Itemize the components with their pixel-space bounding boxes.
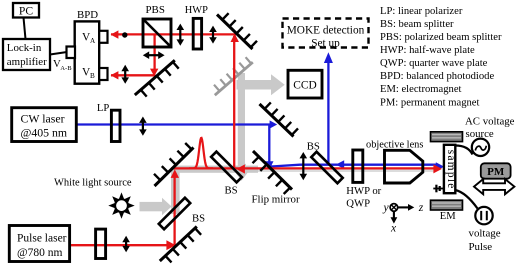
svg-text:Pulse laser: Pulse laser <box>17 232 67 244</box>
svg-text:LP: LP <box>97 103 109 114</box>
svg-text:y: y <box>383 201 390 214</box>
white light thin return line to sample <box>258 170 434 172</box>
flip mirror <box>253 151 293 194</box>
white light beam along corridor <box>173 166 258 173</box>
svg-text:BS: BS <box>225 185 238 197</box>
PC box <box>13 3 39 18</box>
BPD box <box>75 9 100 84</box>
pulse laser box <box>9 226 69 262</box>
blue arrowhead right before mirror <box>270 120 278 128</box>
BPD VA connector <box>99 31 107 43</box>
MOKE detection dashed box <box>283 19 369 50</box>
white light beam vertical BS to corner mirror <box>171 168 180 215</box>
blue CW probe beam horizontal <box>76 62 438 167</box>
svg-text:CW laser: CW laser <box>21 111 65 125</box>
blue arrowhead right into sample <box>436 162 444 171</box>
red arrowhead left on corridor <box>236 164 245 173</box>
white light source (star) <box>108 192 134 218</box>
blue arrowhead up into MOKE detection <box>324 52 333 63</box>
label VA-B <box>53 58 72 72</box>
svg-text:Pulse: Pulse <box>469 241 493 253</box>
blue arrowhead left (return beam) <box>336 160 344 169</box>
svg-text:PM: PM <box>487 166 505 178</box>
svg-text:EM: EM <box>440 211 456 222</box>
svg-text:White light source: White light source <box>54 178 132 189</box>
wire PC to lock-in <box>24 18 26 40</box>
white light beam into CCD (gray arrow) <box>237 74 285 95</box>
BPD left connector <box>67 47 76 59</box>
red node dot <box>122 32 127 37</box>
polarization arrow on CW beam <box>139 117 147 136</box>
svg-text:@405 nm: @405 nm <box>21 126 68 140</box>
PBS cube <box>143 19 171 47</box>
objective lens <box>385 150 423 183</box>
sample holder <box>444 145 457 193</box>
svg-text:EM: electromagnet: EM: electromagnet <box>380 84 462 95</box>
legend <box>380 6 502 109</box>
red arrowhead down to fold mirror <box>150 69 158 77</box>
svg-text:@780 nm: @780 nm <box>17 247 62 259</box>
electromagnet bottom pole <box>431 200 463 210</box>
gray flip-out mirror (to CCD) <box>214 57 253 95</box>
waveplate on pulse line <box>96 229 106 258</box>
svg-text:AC voltage: AC voltage <box>465 116 515 128</box>
CW laser box <box>12 108 77 142</box>
white light vertical beam to CCD branch with down arrow <box>234 73 248 181</box>
coordinate axes <box>390 204 409 218</box>
HWP or QWP <box>353 150 363 182</box>
polarization arrow right of HWP <box>209 26 217 44</box>
mirror top-right (red beam fold) <box>217 13 257 49</box>
svg-text:A: A <box>90 37 96 45</box>
svg-text:Lock-in: Lock-in <box>7 42 42 54</box>
label HWP or QWP <box>346 185 381 210</box>
CCD box <box>288 70 322 98</box>
red beam PBS to BPD VA (top line) <box>70 34 435 245</box>
svg-text:PM: permanent magnet: PM: permanent magnet <box>380 97 479 108</box>
wire lock-in to BPD connector <box>50 52 67 55</box>
svg-text:BS: beam splitter: BS: beam splitter <box>380 19 454 30</box>
polarization arrow PBS-HWP <box>177 24 185 46</box>
mirror PBS down-fold to VB <box>135 60 179 96</box>
wire sample to voltage pulse <box>455 190 477 209</box>
label AC voltage source <box>465 116 515 140</box>
white light gray arrowhead left on corridor <box>236 164 246 175</box>
mirror pulse corner <box>154 143 194 186</box>
polarization arrow on corridor <box>300 152 308 180</box>
LP (linear polarizer) <box>111 110 120 141</box>
svg-text:BPD: balanced photodiode: BPD: balanced photodiode <box>380 71 494 82</box>
mirror blue beam fold <box>260 102 299 136</box>
svg-text:PBS: polarized beam splitter: PBS: polarized beam splitter <box>380 32 502 43</box>
PM motion double arrow (outline) <box>474 179 514 194</box>
svg-text:MOKE detection: MOKE detection <box>287 24 365 36</box>
BS white light <box>159 198 190 229</box>
svg-text:z: z <box>418 201 424 214</box>
svg-text:LP: linear polarizer: LP: linear polarizer <box>380 6 463 17</box>
svg-text:CCD: CCD <box>293 80 316 92</box>
svg-text:Set up: Set up <box>311 38 340 50</box>
polarization arrow on pulse beam <box>122 236 130 253</box>
BS corridor left <box>211 152 242 183</box>
red arrowhead into VB <box>111 71 119 79</box>
svg-text:x: x <box>390 222 397 235</box>
mirror pulse laser fold <box>160 227 201 263</box>
svg-text:BS: BS <box>192 212 205 224</box>
svg-text:source: source <box>466 128 494 140</box>
electromagnet top pole <box>431 132 463 142</box>
red arrowhead up into top mirror <box>231 34 239 42</box>
svg-text:sample: sample <box>445 150 457 190</box>
svg-text:A-B: A-B <box>60 65 72 72</box>
blue arrowhead down at flip mirror <box>265 161 273 170</box>
svg-text:HWP: HWP <box>185 5 208 16</box>
svg-text:PBS: PBS <box>146 4 165 16</box>
electrode to sample <box>433 185 444 193</box>
svg-text:BPD: BPD <box>77 9 98 21</box>
svg-text:HWP or: HWP or <box>346 185 381 197</box>
svg-text:BS: BS <box>307 141 320 153</box>
svg-text:HWP: half-wave plate: HWP: half-wave plate <box>380 45 475 56</box>
svg-text:B: B <box>90 72 95 80</box>
red arrowhead right into sample <box>433 164 442 173</box>
svg-text:voltage: voltage <box>469 227 501 239</box>
svg-text:Flip mirror: Flip mirror <box>252 193 300 205</box>
lock-in amplifier box <box>3 39 50 70</box>
AC voltage source circle <box>472 139 489 156</box>
PM permanent magnet box <box>481 163 511 178</box>
voltage pulse source circle <box>475 207 492 224</box>
BS corridor right (CCD/MOKE branch) <box>311 152 342 183</box>
label voltage Pulse <box>469 227 501 253</box>
svg-text:QWP: quarter wave plate: QWP: quarter wave plate <box>380 58 488 69</box>
red pulse peak glyph <box>189 138 213 168</box>
polarization arrow VB line <box>121 65 129 84</box>
red arrowhead right on pulse line <box>166 240 175 250</box>
svg-text:objective lens: objective lens <box>366 139 423 150</box>
white light beam from source (gray arrow) <box>140 198 172 215</box>
polarization arrow below PBS <box>143 51 165 59</box>
red arrowhead up on pulse vertical <box>171 169 179 178</box>
svg-text:amplifier: amplifier <box>7 56 47 68</box>
BPD VB connector <box>99 68 107 80</box>
svg-text:QWP: QWP <box>346 198 370 210</box>
wire AC source to sample <box>455 146 472 155</box>
red arrowhead into VA <box>111 30 119 38</box>
svg-text:PC: PC <box>19 5 33 18</box>
HWP (top) <box>193 18 201 49</box>
